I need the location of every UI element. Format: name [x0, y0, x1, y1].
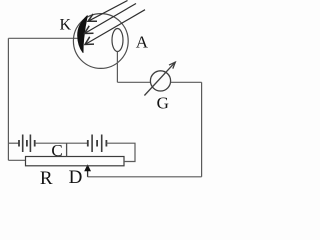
slider D stem — [87, 171, 89, 177]
wire G to right rail — [171, 81, 202, 83]
battery B2 plates — [88, 135, 107, 153]
wire between batteries — [35, 142, 88, 144]
galvanometer needle arrow — [144, 62, 175, 95]
phototube envelope — [73, 14, 128, 69]
wire left rail to rheostat left end — [8, 159, 25, 161]
galvanometer G — [150, 71, 170, 91]
svg-text:D: D — [69, 167, 83, 188]
anode stem wire — [116, 52, 118, 83]
battery B1 plates — [19, 135, 35, 153]
wire B2 to rheostat right end — [106, 143, 135, 161]
light ray 1 — [88, 1, 128, 22]
svg-text:C: C — [51, 141, 62, 160]
rheostat R body — [26, 157, 125, 166]
wire left rail — [7, 38, 9, 160]
light ray 2 — [85, 4, 137, 34]
wire right rail — [201, 82, 203, 177]
battery B1 wire from rail — [8, 142, 19, 144]
anode A (ellipse electrode) — [112, 29, 123, 52]
node C tap wire — [66, 143, 68, 156]
svg-text:A: A — [136, 32, 149, 51]
svg-text:K: K — [60, 16, 72, 33]
svg-text:R: R — [40, 168, 53, 189]
slider D arrowhead — [84, 164, 91, 171]
cathode K (filled crescent) — [78, 16, 88, 53]
wire anode to galvanometer — [117, 81, 150, 83]
wire bottom to slider D — [88, 176, 202, 178]
light ray 3 — [85, 10, 145, 45]
wire K to left rail — [8, 37, 79, 39]
svg-text:G: G — [157, 94, 169, 113]
